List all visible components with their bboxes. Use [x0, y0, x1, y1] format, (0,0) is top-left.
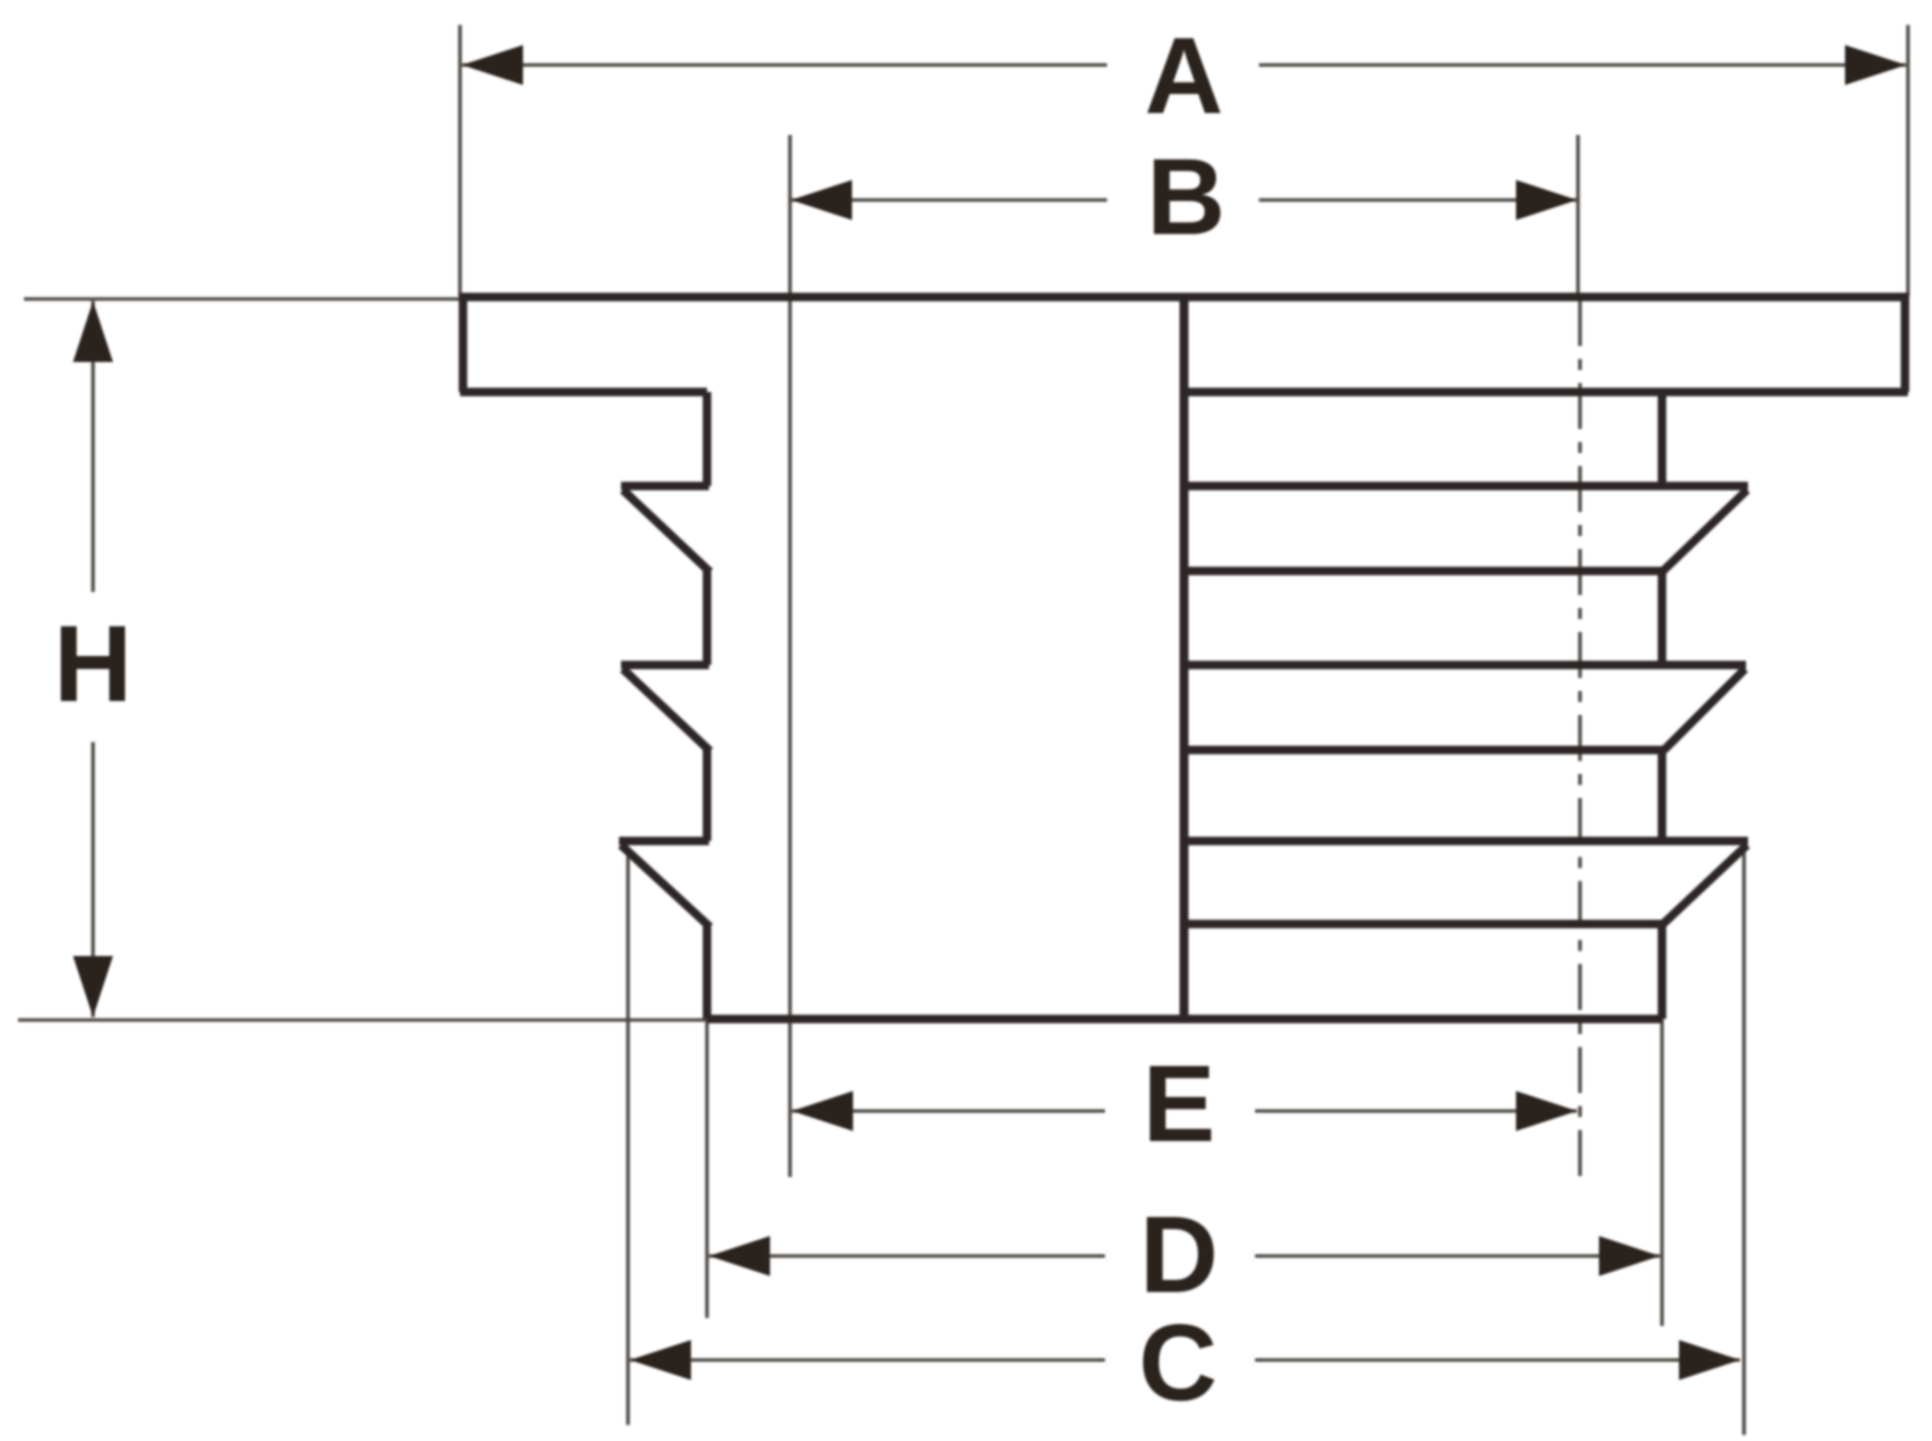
part bottom edge	[707, 1015, 1663, 1024]
extension line D right (x=1662)	[1660, 1020, 1664, 1326]
dimension A line	[462, 63, 1107, 67]
dimension D line	[709, 1254, 1105, 1258]
dimension A left arrowhead	[462, 45, 523, 85]
extension line A right (x=1908)	[1906, 25, 1910, 296]
right rib 2 top edge	[1184, 661, 1746, 670]
dimension A right arrowhead	[1845, 45, 1906, 85]
left wall between barbs 2-3	[703, 750, 712, 841]
dimension E line	[792, 1109, 1105, 1113]
dimension E left arrowhead	[792, 1091, 853, 1131]
right rib 3 top edge	[1184, 837, 1748, 846]
right rib 1 top edge	[1184, 482, 1748, 491]
flange right edge	[1901, 293, 1910, 392]
left barb 1 flank	[623, 490, 710, 572]
left barb 1 notch top	[621, 482, 709, 491]
svg-text:B: B	[1147, 136, 1226, 258]
top reference line (flange top extension to H dimension)	[24, 297, 462, 301]
flange left edge	[459, 293, 468, 392]
left wall between barbs 1-2	[703, 571, 712, 665]
flange bottom edge right	[1184, 388, 1908, 397]
dimension H line	[91, 301, 95, 592]
right rib 2 flank	[1664, 669, 1745, 750]
extension line D left (x=707)	[705, 1020, 709, 1318]
left barb 3 flank	[621, 845, 710, 927]
right body edge between ribs 2-3	[1658, 750, 1667, 841]
svg-text:A: A	[1145, 15, 1224, 137]
right rib 1 bottom edge	[1184, 567, 1663, 576]
svg-text:D: D	[1140, 1194, 1219, 1316]
right rib 1 flank	[1663, 490, 1747, 571]
extension line C right (x=1744)	[1742, 848, 1746, 1435]
left wall above barb 1	[703, 392, 712, 486]
dimension B line	[791, 198, 1107, 202]
svg-text:E: E	[1143, 1043, 1216, 1165]
dimension B left arrowhead	[791, 180, 852, 220]
left barb 2 flank	[623, 669, 710, 751]
right body edge below rib 3	[1658, 924, 1667, 1019]
dimension C line	[630, 1358, 1105, 1362]
right rib 3 bottom edge	[1184, 920, 1663, 929]
extension line C left (x=628)	[626, 848, 630, 1425]
center line (dash-dot, x=1580)	[1578, 300, 1582, 1188]
extension line B/E left (x=790)	[788, 135, 792, 1177]
bottom reference line (part bottom extension to H dimension)	[18, 1018, 707, 1022]
flange top edge	[460, 293, 1908, 302]
svg-text:C: C	[1139, 1302, 1218, 1424]
dimension D left arrowhead	[709, 1236, 770, 1276]
right neck edge	[1658, 392, 1667, 486]
flange bottom edge left	[460, 388, 707, 397]
dimension B right arrowhead	[1516, 180, 1577, 220]
right body edge between ribs 1-2	[1658, 571, 1667, 665]
extension line A left (x=460)	[458, 25, 462, 296]
dimension H bottom arrowhead	[73, 956, 113, 1017]
dimension E right arrowhead	[1516, 1091, 1577, 1131]
dimension D right arrowhead	[1599, 1236, 1660, 1276]
dimension H top arrowhead	[73, 301, 113, 362]
right rib 2 bottom edge	[1184, 746, 1664, 755]
inner bore edge (x=1184)	[1180, 297, 1189, 1019]
svg-text:H: H	[54, 603, 133, 725]
left barb 2 notch top	[621, 661, 709, 670]
extension line B right (x=1578)	[1576, 135, 1580, 296]
dimension C left arrowhead	[630, 1340, 691, 1380]
right rib 3 flank	[1663, 845, 1747, 924]
left wall below barb 3	[703, 926, 712, 1019]
left barb 3 notch top	[619, 837, 709, 846]
dimension C right arrowhead	[1679, 1340, 1740, 1380]
